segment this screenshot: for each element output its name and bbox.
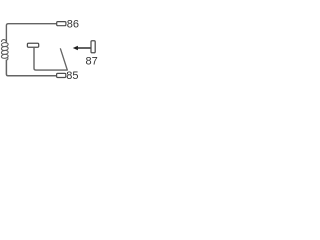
terminal 86 pill [57, 22, 66, 26]
wire from terminal 86 down left side to coil [6, 24, 56, 43]
armature (movable contact arm) [60, 48, 67, 70]
relay coil [1, 40, 8, 60]
wire from coil down to bottom corner and right to terminal 85 [6, 60, 56, 76]
terminal 87 pill [91, 41, 95, 53]
svg-text:85: 85 [66, 70, 78, 82]
wire from fixed contact down and right to armature pivot [34, 47, 68, 70]
svg-text:87: 87 [86, 55, 98, 67]
terminal 85 pill [57, 73, 66, 77]
svg-text:86: 86 [67, 19, 79, 31]
fixed contact T [27, 43, 38, 47]
arrow pointing at contact [73, 46, 91, 51]
